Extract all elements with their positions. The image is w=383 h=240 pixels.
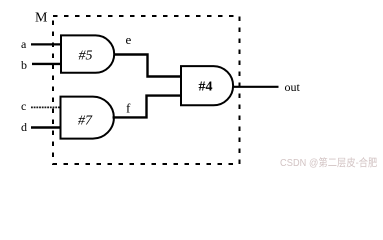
svg-text:#4: #4 [199,80,213,95]
module boundary dashed box M [53,16,240,164]
svg-text:d: d [21,120,27,134]
wire out [233,86,279,88]
svg-text:b: b [21,58,27,72]
AND gate #7 [61,97,114,139]
svg-text:c: c [21,99,26,113]
wire f from #7 to #4 [113,96,182,118]
svg-text:#5: #5 [79,49,93,64]
wire e from #5 to #4 [114,55,182,77]
svg-text:out: out [285,80,301,94]
AND gate #4 [181,66,233,105]
watermark [280,155,377,170]
AND gate #5 [61,35,114,72]
svg-text:a: a [21,37,27,51]
svg-text:M: M [35,11,48,26]
wire d [31,126,62,128]
svg-text:e: e [126,32,132,47]
wire c (light/dotted in scan) [31,106,62,108]
svg-text:#7: #7 [78,114,93,129]
svg-text:f: f [126,101,131,116]
wire a [31,43,62,45]
wire b [32,63,62,65]
